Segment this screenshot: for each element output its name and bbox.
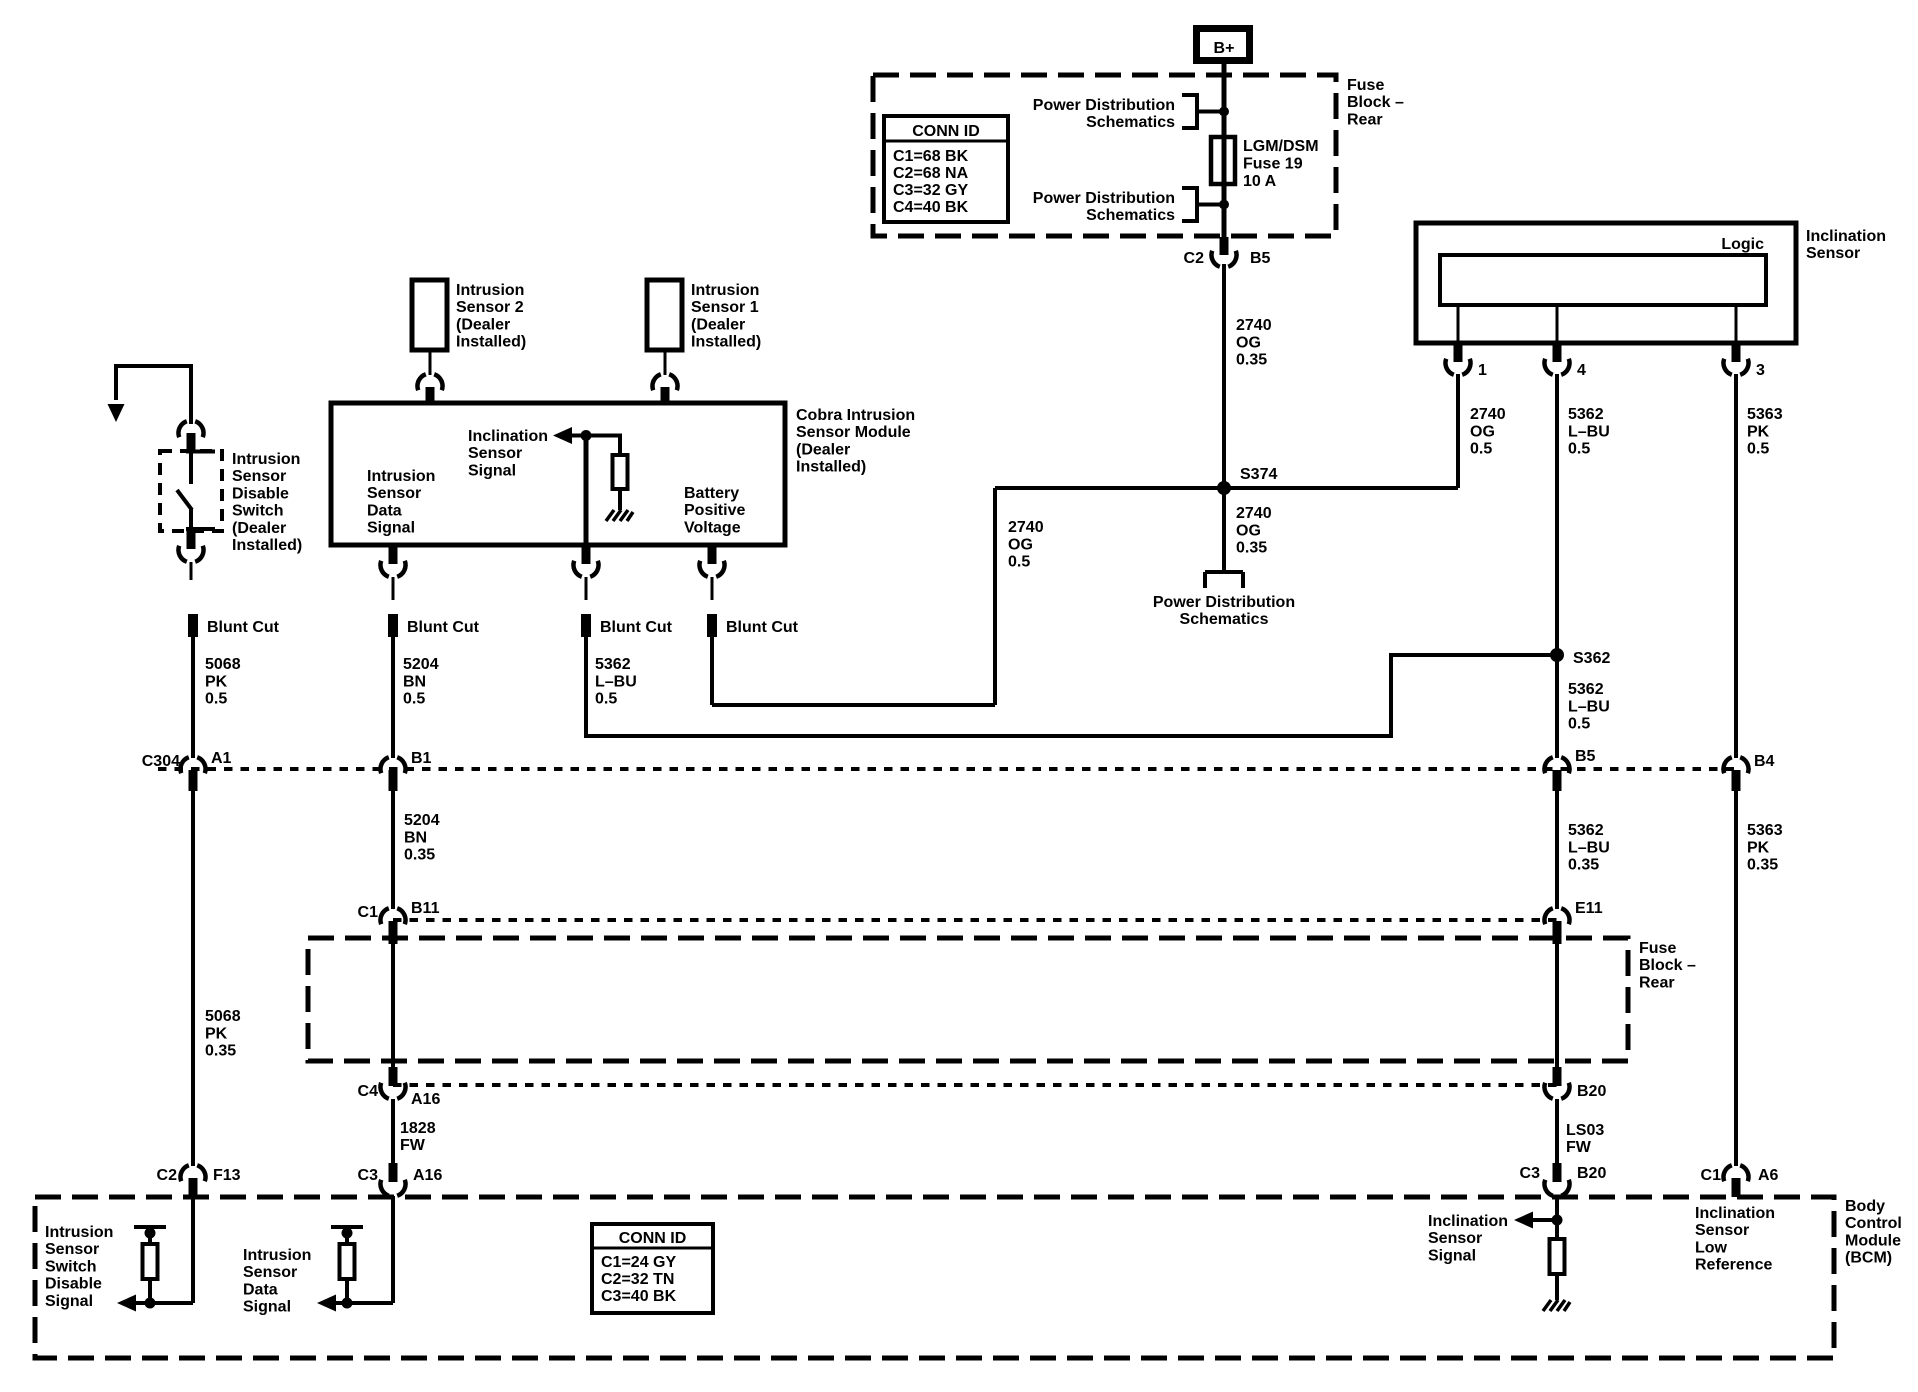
svg-text:C2: C2 bbox=[1184, 250, 1205, 267]
svg-text:(Dealer: (Dealer bbox=[232, 520, 286, 537]
svg-text:2740: 2740 bbox=[1236, 505, 1272, 522]
svg-text:5362: 5362 bbox=[1568, 822, 1604, 839]
fuse LGM/DSM Fuse 19 10 A bbox=[1211, 137, 1235, 184]
wire C3 B20 down inside BCM bbox=[1555, 1196, 1559, 1240]
svg-text:C2=68 NA: C2=68 NA bbox=[893, 165, 969, 182]
svg-text:B1: B1 bbox=[411, 750, 432, 767]
power distribution schematics off-page symbol bbox=[1205, 572, 1243, 588]
arrowhead down bbox=[108, 404, 125, 422]
svg-text:1828: 1828 bbox=[400, 1120, 436, 1137]
svg-text:C4=40 BK: C4=40 BK bbox=[893, 199, 969, 216]
svg-text:C304: C304 bbox=[142, 753, 180, 770]
svg-text:Sensor: Sensor bbox=[367, 485, 421, 502]
wire stub with arrow (to intrusion system) bbox=[116, 366, 191, 424]
junction node on B+ wire (lower) bbox=[1219, 200, 1229, 210]
svg-text:B5: B5 bbox=[1250, 250, 1271, 267]
svg-text:Blunt Cut: Blunt Cut bbox=[407, 619, 480, 636]
svg-text:PK: PK bbox=[1747, 839, 1770, 856]
resistor (cobra internal) bbox=[613, 455, 628, 489]
wire 1828 FW C4 to BCM C3 A16 bbox=[391, 1099, 395, 1164]
svg-text:Fuse 19: Fuse 19 bbox=[1243, 156, 1303, 173]
svg-text:Signal: Signal bbox=[468, 462, 516, 479]
arrow intrusion sensor switch disable signal bbox=[117, 1295, 136, 1312]
svg-text:0.35: 0.35 bbox=[1236, 352, 1267, 369]
svg-text:0.35: 0.35 bbox=[1236, 540, 1267, 557]
svg-text:B20: B20 bbox=[1577, 1083, 1606, 1100]
svg-text:C1=24 GY: C1=24 GY bbox=[601, 1254, 676, 1271]
svg-text:(Dealer: (Dealer bbox=[456, 316, 510, 333]
svg-text:C3: C3 bbox=[1520, 1165, 1541, 1182]
svg-text:2740: 2740 bbox=[1470, 406, 1506, 423]
switch fixed contact bottom bbox=[186, 527, 215, 531]
svg-text:Installed): Installed) bbox=[232, 537, 302, 554]
wire vertical from battery-positive blunt cut bbox=[710, 637, 714, 705]
svg-text:Intrusion: Intrusion bbox=[456, 282, 524, 299]
connector (sensor 1 to module) bbox=[664, 350, 667, 375]
node top (switch disable resistor) bbox=[145, 1228, 156, 1239]
arrow inclination sensor signal (cobra) bbox=[553, 427, 572, 444]
wire 2740 OG from fuse block to splice S374 bbox=[1222, 264, 1226, 488]
battery positive voltage node B+ bbox=[1197, 29, 1250, 61]
svg-text:Data: Data bbox=[243, 1281, 278, 1298]
inclination sensor pin 4 bbox=[1556, 305, 1559, 343]
svg-text:Blunt Cut: Blunt Cut bbox=[600, 619, 673, 636]
arrow intrusion sensor data signal bbox=[317, 1295, 336, 1312]
svg-text:Power Distribution: Power Distribution bbox=[1153, 594, 1295, 611]
svg-text:10 A: 10 A bbox=[1243, 173, 1277, 190]
connector C1 A6 (BCM) bbox=[1723, 1165, 1748, 1181]
connector E11 bbox=[1544, 908, 1569, 924]
svg-text:C3: C3 bbox=[358, 1167, 379, 1184]
connector B4 (C304) bbox=[1723, 757, 1748, 773]
svg-text:Intrusion: Intrusion bbox=[691, 282, 759, 299]
svg-text:Block –: Block – bbox=[1347, 94, 1404, 111]
wire 5362 L-BU B5 down to E11 bbox=[1555, 788, 1559, 909]
svg-text:Intrusion: Intrusion bbox=[45, 1224, 113, 1241]
tap bracket upper (power distribution) bbox=[1182, 95, 1224, 128]
blunt cut (battery positive voltage) bbox=[707, 614, 717, 637]
wire arrow to junction (BCM) bbox=[1533, 1218, 1557, 1222]
svg-text:Signal: Signal bbox=[243, 1299, 291, 1316]
dotted connector line C4/B20 (fuse block bottom) bbox=[393, 1083, 1557, 1087]
svg-text:5363: 5363 bbox=[1747, 406, 1783, 423]
fuse block - rear dashed box (top) bbox=[873, 75, 1336, 236]
svg-text:B5: B5 bbox=[1575, 748, 1596, 765]
ground (BCM) bbox=[1543, 1300, 1570, 1311]
connector C4 A16 bbox=[389, 1067, 398, 1086]
svg-text:Power Distribution: Power Distribution bbox=[1033, 97, 1175, 114]
CONN ID table (BCM) bbox=[592, 1224, 713, 1313]
svg-text:BN: BN bbox=[404, 829, 427, 846]
wire x1557 inside fuse block bbox=[1555, 939, 1559, 1069]
svg-text:0.35: 0.35 bbox=[1568, 857, 1599, 874]
pull-up rail bar (switch disable) bbox=[134, 1225, 166, 1229]
svg-text:Fuse: Fuse bbox=[1347, 77, 1384, 94]
svg-text:Sensor: Sensor bbox=[243, 1264, 297, 1281]
svg-text:Disable: Disable bbox=[45, 1276, 102, 1293]
svg-text:4: 4 bbox=[1577, 362, 1586, 379]
intrusion sensor disable switch dashed box bbox=[160, 451, 222, 531]
svg-text:5362: 5362 bbox=[1568, 406, 1604, 423]
svg-text:Disable: Disable bbox=[232, 485, 289, 502]
svg-text:C1: C1 bbox=[358, 904, 379, 921]
node junction inclination signal (BCM) bbox=[1552, 1215, 1563, 1226]
wire 2740 OG from pin 1 down to node row bbox=[1456, 374, 1460, 488]
svg-text:Body: Body bbox=[1845, 1198, 1885, 1215]
svg-text:B+: B+ bbox=[1214, 40, 1235, 57]
svg-text:OG: OG bbox=[1470, 423, 1495, 440]
svg-text:Reference: Reference bbox=[1695, 1257, 1772, 1274]
svg-text:Sensor 1: Sensor 1 bbox=[691, 299, 759, 316]
arrow inclination sensor signal (BCM) bbox=[1514, 1212, 1533, 1229]
logic block inside inclination sensor bbox=[1440, 255, 1766, 305]
svg-text:0.5: 0.5 bbox=[403, 691, 425, 708]
svg-text:5363: 5363 bbox=[1747, 822, 1783, 839]
resistor (switch disable pull-up) bbox=[143, 1244, 158, 1279]
svg-text:5068: 5068 bbox=[205, 1008, 241, 1025]
svg-text:Blunt Cut: Blunt Cut bbox=[207, 619, 280, 636]
dotted in-line connector C304 bbox=[158, 767, 1742, 771]
svg-text:Signal: Signal bbox=[1428, 1247, 1476, 1264]
svg-text:Battery: Battery bbox=[684, 485, 739, 502]
node bottom (data resistor) bbox=[342, 1298, 353, 1309]
svg-text:(Dealer: (Dealer bbox=[796, 441, 850, 458]
svg-text:Data: Data bbox=[367, 502, 402, 519]
svg-text:A16: A16 bbox=[411, 1091, 440, 1108]
svg-text:CONN ID: CONN ID bbox=[912, 123, 980, 140]
connector C2 F13 (BCM) bbox=[180, 1165, 205, 1181]
svg-text:Sensor 2: Sensor 2 bbox=[456, 299, 524, 316]
svg-text:0.5: 0.5 bbox=[1568, 716, 1590, 733]
svg-text:Sensor: Sensor bbox=[1695, 1222, 1749, 1239]
svg-text:(BCM): (BCM) bbox=[1845, 1250, 1892, 1267]
wire pull-up resistor (switch disable) bbox=[148, 1227, 152, 1303]
connector C2 B5 (fuse block output) bbox=[1220, 237, 1229, 255]
wire S374 down to power distribution schematics bbox=[1222, 488, 1226, 572]
svg-text:0.35: 0.35 bbox=[404, 847, 435, 864]
svg-text:A16: A16 bbox=[413, 1167, 442, 1184]
wire signal row to switch-disable input bbox=[136, 1301, 193, 1305]
svg-text:Switch: Switch bbox=[45, 1258, 97, 1275]
svg-text:LGM/DSM: LGM/DSM bbox=[1243, 138, 1319, 155]
svg-text:Module: Module bbox=[1845, 1232, 1901, 1249]
wire 5362 blunt cut down bbox=[584, 637, 588, 738]
CONN ID table (fuse block rear) bbox=[884, 116, 1008, 222]
connector A1 (C304) bbox=[180, 757, 205, 773]
svg-text:Switch: Switch bbox=[232, 503, 284, 520]
wire C3 A16 down inside BCM bbox=[391, 1196, 395, 1303]
blunt cut (5204 BN) bbox=[388, 614, 398, 637]
intrusion sensor 2 box bbox=[412, 280, 447, 350]
tap bracket lower (power distribution) bbox=[1182, 188, 1224, 221]
svg-text:LS03: LS03 bbox=[1566, 1122, 1604, 1139]
wire junction down to module pin bbox=[584, 436, 589, 546]
svg-text:Intrusion: Intrusion bbox=[367, 468, 435, 485]
wire pull-up resistor (data signal) bbox=[345, 1227, 349, 1303]
svg-text:PK: PK bbox=[205, 673, 228, 690]
svg-text:Intrusion: Intrusion bbox=[243, 1247, 311, 1264]
svg-text:Installed): Installed) bbox=[691, 334, 761, 351]
svg-text:0.5: 0.5 bbox=[1568, 441, 1590, 458]
wire B+ feed into fuse block bbox=[1222, 64, 1227, 240]
inclination sensor pin 3 bbox=[1735, 305, 1738, 343]
svg-text:Inclination: Inclination bbox=[1695, 1205, 1775, 1222]
svg-text:5068: 5068 bbox=[205, 656, 241, 673]
svg-text:Sensor: Sensor bbox=[1428, 1230, 1482, 1247]
connector B1 (C304) bbox=[380, 757, 405, 773]
svg-text:(Dealer: (Dealer bbox=[691, 316, 745, 333]
svg-text:Blunt Cut: Blunt Cut bbox=[726, 619, 799, 636]
wire arrow to internal resistor branch bbox=[571, 436, 620, 457]
splice S362 bbox=[1550, 648, 1564, 662]
svg-text:C3=40 BK: C3=40 BK bbox=[601, 1288, 677, 1305]
svg-text:0.5: 0.5 bbox=[1747, 441, 1769, 458]
connector (switch bottom) bbox=[187, 531, 196, 549]
svg-text:S362: S362 bbox=[1573, 650, 1610, 667]
svg-text:A1: A1 bbox=[211, 750, 232, 767]
dotted connector line C1/E11 (fuse block top) bbox=[393, 918, 1557, 922]
junction node on B+ wire (upper) bbox=[1219, 107, 1229, 117]
svg-text:Positive: Positive bbox=[684, 502, 745, 519]
svg-text:Sensor: Sensor bbox=[232, 468, 286, 485]
wire 5204 BN B1 down to C1 B11 bbox=[391, 788, 395, 909]
connector (switch top) bbox=[178, 421, 203, 437]
svg-text:Schematics: Schematics bbox=[1086, 114, 1175, 131]
node junction inclination signal (cobra) bbox=[581, 430, 592, 441]
svg-text:OG: OG bbox=[1236, 522, 1261, 539]
inclination sensor pin 1 bbox=[1457, 305, 1460, 343]
wire resistor to ground bbox=[618, 489, 622, 510]
svg-text:PK: PK bbox=[205, 1025, 228, 1042]
svg-text:2740: 2740 bbox=[1008, 519, 1044, 536]
svg-text:0.35: 0.35 bbox=[1747, 857, 1778, 874]
svg-text:B11: B11 bbox=[411, 900, 440, 917]
wire 5068 blunt cut to C304 bbox=[191, 637, 195, 758]
pull-up rail bar (data signal) bbox=[331, 1225, 363, 1229]
blunt cut (5068 PK) bbox=[188, 614, 198, 637]
wire C2 F13 down inside BCM bbox=[191, 1197, 195, 1303]
body control module dashed box bbox=[35, 1197, 1834, 1358]
svg-text:Rear: Rear bbox=[1347, 111, 1383, 128]
cobra intrusion sensor module box bbox=[331, 403, 785, 545]
svg-text:5204: 5204 bbox=[403, 656, 439, 673]
wire 5068 PK A1 down to BCM C2 F13 bbox=[191, 788, 195, 1166]
svg-text:0.5: 0.5 bbox=[205, 691, 227, 708]
wire x393 inside fuse block bbox=[391, 939, 395, 1069]
svg-text:C1=68 BK: C1=68 BK bbox=[893, 148, 969, 165]
connector (sensor 2 to module) bbox=[429, 350, 432, 375]
svg-text:C2: C2 bbox=[157, 1167, 178, 1184]
svg-text:2740: 2740 bbox=[1236, 317, 1272, 334]
svg-text:Intrusion: Intrusion bbox=[232, 451, 300, 468]
svg-text:Signal: Signal bbox=[45, 1293, 93, 1310]
svg-text:Rear: Rear bbox=[1639, 974, 1675, 991]
connector C3 A16 (BCM) bbox=[389, 1163, 398, 1182]
switch blade bbox=[177, 490, 192, 510]
wire vertical drop x=995 bbox=[993, 488, 997, 705]
wire 5362 L-BU from pin 4 through S362 to B5 bbox=[1555, 374, 1559, 758]
svg-text:Sensor: Sensor bbox=[1806, 245, 1860, 262]
wire 5204 blunt cut to B1 bbox=[391, 637, 395, 758]
svg-text:Sensor Module: Sensor Module bbox=[796, 424, 911, 441]
svg-text:Sensor: Sensor bbox=[468, 445, 522, 462]
connector C1 B11 bbox=[380, 908, 405, 924]
svg-text:Power Distribution: Power Distribution bbox=[1033, 190, 1175, 207]
resistor (BCM inclination signal) bbox=[1550, 1239, 1565, 1274]
svg-text:Low: Low bbox=[1695, 1239, 1728, 1256]
svg-text:FW: FW bbox=[400, 1137, 426, 1154]
blunt cut (5362 L-BU) bbox=[581, 614, 591, 637]
svg-text:Voltage: Voltage bbox=[684, 519, 741, 536]
connector B20 (fuse block) bbox=[1553, 1067, 1562, 1086]
svg-text:FW: FW bbox=[1566, 1139, 1592, 1156]
svg-text:Inclination: Inclination bbox=[1806, 228, 1886, 245]
svg-text:L–BU: L–BU bbox=[595, 673, 637, 690]
svg-text:E11: E11 bbox=[1575, 900, 1603, 917]
svg-text:3: 3 bbox=[1756, 362, 1765, 379]
svg-text:5362: 5362 bbox=[595, 656, 631, 673]
svg-text:Signal: Signal bbox=[367, 520, 415, 537]
wire 5363 PK from pin 3 down to B4 bbox=[1734, 374, 1738, 758]
cobra module pin (inclination sensor signal) bbox=[582, 545, 591, 564]
svg-text:C2=32 TN: C2=32 TN bbox=[601, 1271, 674, 1288]
wire resistor to ground (BCM) bbox=[1555, 1274, 1559, 1300]
wire horizontal to battery-positive blunt cut bbox=[712, 703, 995, 707]
svg-text:Installed): Installed) bbox=[796, 459, 866, 476]
wire LS03 FW B20 to BCM C3 B20 bbox=[1555, 1099, 1559, 1164]
svg-text:Installed): Installed) bbox=[456, 334, 526, 351]
svg-text:Schematics: Schematics bbox=[1086, 207, 1175, 224]
svg-text:5204: 5204 bbox=[404, 812, 440, 829]
svg-text:PK: PK bbox=[1747, 423, 1770, 440]
svg-text:CONN ID: CONN ID bbox=[619, 1230, 687, 1247]
svg-text:5362: 5362 bbox=[1568, 681, 1604, 698]
intrusion sensor 1 box bbox=[647, 280, 682, 350]
svg-text:Control: Control bbox=[1845, 1215, 1902, 1232]
connector C3 B20 (BCM) bbox=[1553, 1163, 1562, 1182]
cobra module pin (intrusion sensor data signal) bbox=[389, 545, 398, 564]
svg-text:0.5: 0.5 bbox=[1470, 441, 1492, 458]
inclination sensor box bbox=[1416, 223, 1796, 343]
svg-text:Sensor: Sensor bbox=[45, 1241, 99, 1258]
wire signal row to data input bbox=[336, 1301, 393, 1305]
connector B5 (C304) bbox=[1544, 757, 1569, 773]
svg-text:L–BU: L–BU bbox=[1568, 423, 1610, 440]
svg-text:Inclination: Inclination bbox=[468, 428, 548, 445]
svg-text:B4: B4 bbox=[1754, 753, 1775, 770]
svg-text:Fuse: Fuse bbox=[1639, 940, 1676, 957]
svg-text:1: 1 bbox=[1478, 362, 1487, 379]
wire horizontal through S374 to pin-1 drop bbox=[995, 486, 1458, 490]
svg-text:C3=32 GY: C3=32 GY bbox=[893, 182, 968, 199]
svg-text:F13: F13 bbox=[213, 1167, 241, 1184]
wire branch from data-signal blunt cut to S362 bbox=[586, 655, 1557, 737]
svg-text:Schematics: Schematics bbox=[1180, 611, 1269, 628]
node top (data resistor) bbox=[342, 1228, 353, 1239]
svg-text:0.5: 0.5 bbox=[595, 691, 617, 708]
svg-text:A6: A6 bbox=[1758, 1167, 1779, 1184]
splice S374 bbox=[1217, 481, 1231, 495]
svg-text:B20: B20 bbox=[1577, 1165, 1606, 1182]
svg-text:S374: S374 bbox=[1240, 466, 1277, 483]
switch fixed contact top bbox=[186, 450, 215, 454]
svg-text:L–BU: L–BU bbox=[1568, 839, 1610, 856]
svg-text:Cobra Intrusion: Cobra Intrusion bbox=[796, 407, 915, 424]
ground (cobra internal) bbox=[606, 510, 633, 521]
svg-text:Inclination: Inclination bbox=[1428, 1213, 1508, 1230]
svg-text:0.5: 0.5 bbox=[1008, 554, 1030, 571]
svg-text:C4: C4 bbox=[358, 1083, 379, 1100]
svg-text:0.35: 0.35 bbox=[205, 1043, 236, 1060]
wire 5363 PK B4 down to BCM C1 A6 bbox=[1734, 788, 1738, 1166]
fuse block - rear dashed box (lower) bbox=[308, 938, 1628, 1061]
svg-text:OG: OG bbox=[1008, 536, 1033, 553]
svg-text:Block –: Block – bbox=[1639, 957, 1696, 974]
svg-text:BN: BN bbox=[403, 673, 426, 690]
svg-text:Logic: Logic bbox=[1721, 236, 1764, 253]
svg-text:L–BU: L–BU bbox=[1568, 698, 1610, 715]
svg-text:C1: C1 bbox=[1701, 1167, 1722, 1184]
svg-text:OG: OG bbox=[1236, 334, 1261, 351]
resistor (data signal pull-up) bbox=[340, 1244, 355, 1279]
cobra module pin (battery positive voltage) bbox=[708, 545, 717, 564]
node bottom (switch disable resistor) bbox=[145, 1298, 156, 1309]
